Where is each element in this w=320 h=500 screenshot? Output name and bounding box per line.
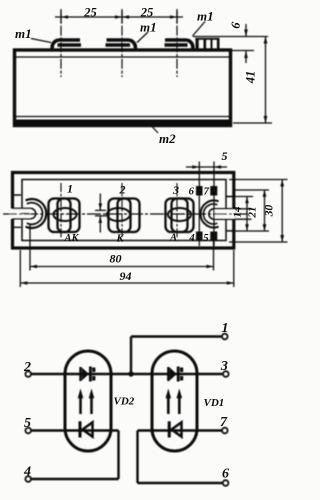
diode VD2 bottom (80, 421, 93, 437)
svg-text:4: 4 (188, 233, 194, 244)
horizontal centerline (3, 213, 250, 215)
wire pin2 to pin3 (31, 373, 223, 375)
light arrows VD2 (78, 389, 95, 415)
svg-text:14: 14 (232, 206, 244, 218)
case inner outline (22, 180, 226, 241)
centerline terminal 1 (60, 9, 62, 77)
svg-text:m2: m2 (159, 131, 176, 146)
pin column centerline b (213, 162, 215, 247)
svg-text:2: 2 (119, 183, 126, 197)
svg-text:3: 3 (220, 359, 228, 374)
right ear notch (226, 197, 234, 231)
svg-text:94: 94 (120, 269, 132, 283)
svg-text:7: 7 (204, 187, 210, 198)
svg-text:25: 25 (140, 6, 154, 20)
wire pin7 row (138, 431, 224, 484)
pin column centerline a (198, 162, 200, 247)
terminal 1 vertical centerline (60, 183, 62, 239)
m1 leader no.2 (137, 32, 148, 43)
svg-text:m1: m1 (15, 26, 32, 41)
svg-text:VD1: VD1 (204, 397, 225, 409)
wire pin1 (131, 337, 222, 375)
diode VD1 bottom (169, 421, 181, 437)
svg-text:АК: АК (63, 233, 79, 244)
terminal 3 squares (166, 199, 188, 233)
dimension 41 line (265, 37, 267, 124)
svg-text:4: 4 (23, 465, 31, 480)
svg-text:1: 1 (222, 321, 229, 336)
terminal tab m1 no.1 (52, 40, 80, 49)
left slot centerline dash (21, 213, 29, 215)
centerline terminal 2 (121, 9, 123, 77)
svg-text:VD2: VD2 (114, 396, 135, 408)
terminal 3 vertical centerline (176, 183, 178, 239)
plate outline (13, 173, 234, 249)
optopair body VD1 (152, 351, 197, 451)
terminal 2 vertical centerline (121, 183, 123, 239)
svg-text:6: 6 (222, 467, 229, 482)
left ear step (12, 197, 14, 230)
pin 1 (222, 334, 228, 340)
pin 5 (25, 428, 31, 434)
dimension line 25/25 (55, 16, 183, 18)
slot line extensions right (234, 209, 252, 219)
svg-text:6: 6 (189, 187, 195, 198)
diode VD2 top (81, 367, 96, 382)
pin 4 pad (196, 232, 203, 242)
svg-text:m1: m1 (197, 9, 214, 24)
m1 leader no.3 (193, 22, 206, 37)
svg-text:30: 30 (264, 205, 276, 218)
terminal 2 screw ellipse (107, 208, 130, 221)
body top inner line (16, 56, 229, 58)
junction node (128, 371, 133, 376)
svg-text:3: 3 (172, 183, 179, 197)
m2 leader (147, 121, 158, 133)
extension line pins top (193, 36, 268, 38)
svg-text:1: 1 (67, 182, 73, 196)
terminal 1 squares (49, 199, 71, 233)
dimension 14 line (246, 197, 248, 232)
body bottom base band (16, 120, 230, 125)
svg-text:80: 80 (110, 252, 122, 266)
svg-text:25: 25 (83, 6, 97, 20)
centerline terminal 3 (176, 9, 178, 77)
terminal 2 squares (109, 199, 131, 233)
pin 6 (223, 480, 229, 486)
body bottom inner line (16, 116, 229, 118)
pin 4 (25, 476, 31, 482)
right slot mouth (214, 209, 235, 218)
svg-text:5: 5 (203, 233, 208, 244)
svg-text:2: 2 (23, 360, 31, 375)
terminal thickness dimension arrows (99, 194, 101, 233)
dimension 30 line (281, 180, 283, 243)
pin 5 pad (210, 232, 217, 242)
diode VD1 top (168, 367, 183, 382)
left ear notch (13, 195, 22, 227)
pin 6 pad (196, 186, 203, 196)
pin 7 pad (210, 186, 217, 196)
right slot arcs (201, 201, 219, 228)
pin 2 (25, 371, 31, 377)
svg-text:m1: m1 (140, 20, 157, 35)
dimension 6 arrows (245, 24, 247, 63)
dimension 5 line (186, 166, 227, 168)
terminal tab m1 no.2 (107, 40, 136, 49)
svg-text:7: 7 (220, 415, 228, 430)
optopair body VD2 (65, 351, 111, 451)
terminal tab m1 no.3 (165, 40, 193, 49)
dimension 94 line (20, 282, 234, 284)
terminal 3 screw ellipse (168, 208, 191, 221)
left slot mouth (10, 209, 31, 219)
svg-text:5: 5 (24, 416, 31, 431)
svg-text:А: А (169, 233, 177, 244)
small pin plates stack (195, 38, 219, 40)
extension line body top right (231, 50, 254, 52)
pin 7 (222, 428, 228, 434)
extension line body bottom right (233, 122, 272, 124)
module body outline (15, 50, 231, 126)
m1 leader no.1 (31, 39, 51, 43)
terminal 1 screw ellipse (54, 208, 77, 221)
wire pin5 row (31, 431, 119, 480)
svg-text:К: К (115, 234, 124, 245)
light arrows VD1 (166, 389, 183, 415)
dimension 21 line (264, 190, 266, 231)
svg-text:41: 41 (244, 71, 258, 85)
svg-text:21: 21 (247, 207, 259, 219)
svg-text:5: 5 (222, 149, 228, 163)
left slot arcs (26, 199, 47, 228)
pin 3 (223, 371, 229, 377)
dimension 80 line (30, 266, 214, 268)
